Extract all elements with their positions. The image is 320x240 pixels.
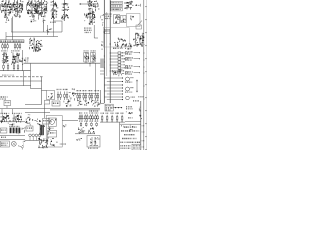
bypass group 1 (77, 90, 82, 100)
capacitor C7 inside (48, 93, 53, 98)
cathode resistor R6 (3, 63, 5, 71)
bus label (89, 110, 98, 111)
rectifier V8 cluster (114, 38, 126, 48)
resistor R3 (7, 43, 9, 50)
table title line 5 (120, 142, 139, 143)
shield box small (47, 91, 55, 100)
output transformer T6 (40, 125, 45, 136)
oscillator box (87, 136, 100, 148)
resistor R5 (17, 43, 19, 50)
heater ladder rung 6 (107, 93, 123, 94)
twin lead wires (90, 9, 92, 26)
band row group 1 (1, 115, 11, 124)
cathode resistor R7 (7, 63, 9, 71)
chassis bus line B (50, 109, 100, 111)
speaker plug P1 (125, 1, 133, 10)
wave switch section 3 (91, 100, 96, 106)
antenna terminal row (125, 65, 140, 69)
wire parallel AVC line (10, 18, 12, 32)
phono jack row (125, 77, 133, 83)
stub wires left (100, 71, 104, 74)
power transformer box (0, 141, 9, 147)
dropping resistor rung 1 (110, 52, 125, 54)
label x128 (128, 117, 133, 118)
alignment pair (126, 106, 133, 114)
bandswitch section 3 (89, 112, 93, 126)
tick marks x27 (28, 115, 31, 119)
wire from IF unit (113, 107, 122, 108)
arrow marks (76, 138, 82, 141)
dropping resistor rung 2 (104, 55, 125, 57)
dropping resistor rung 5 (110, 64, 125, 66)
tube V5 label (1, 50, 8, 51)
bus junction dots (104, 31, 111, 44)
wire bracket (94, 25, 98, 38)
wire corner y88 (31, 88, 42, 90)
band row group 1 label (1, 113, 10, 114)
resistor group 1 label (57, 89, 62, 90)
electrolytic capacitor C5 block (114, 15, 121, 24)
oscillator label (88, 148, 98, 149)
wave switch section 1 (77, 100, 82, 105)
table title line 3 (124, 134, 134, 135)
bandswitch bus line (78, 118, 99, 120)
wire bus horizontal y32 (11, 31, 62, 33)
socket cluster with pilot lamps (113, 70, 124, 76)
output jack J2 row (125, 57, 140, 61)
B+ feed wire vertical x22 (22, 50, 24, 71)
detector load R11 (91, 52, 97, 63)
heater ladder rung 7 (104, 96, 123, 97)
detector output drop wire (95, 63, 97, 92)
vibrator cluster 1 (78, 127, 85, 133)
RF choke L2 chain (50, 0, 58, 21)
wire drop from L3 (61, 21, 63, 32)
wire stub (5, 32, 7, 37)
tone control transformer B (140, 33, 145, 47)
resistor R4 (14, 43, 16, 50)
wire bus horizontal y36 (6, 36, 58, 38)
stub x12 to strip (12, 32, 14, 40)
filter box (26, 126, 33, 131)
wire from T4 down (43, 20, 45, 32)
note text (138, 96, 144, 97)
small box in shield (105, 29, 110, 34)
bypass capacitor C2 (21, 58, 25, 65)
trimmer bank 5 (120, 113, 123, 122)
IF unit box (105, 104, 113, 111)
right margin text 1 (142, 125, 145, 126)
relay box row 1 (111, 1, 123, 4)
oscillator section V7b (84, 11, 95, 25)
wire under label row (0, 42, 24, 44)
tube V6 envelope (11, 52, 21, 65)
drop wires below switch box (2, 109, 13, 114)
ground symbol cluster (19, 141, 25, 150)
dashed arrow link (132, 4, 141, 7)
corner wires (101, 100, 105, 103)
heater ladder rung 5 (104, 90, 123, 91)
small parts y122 (8, 123, 15, 126)
terminal strip lower (50, 139, 58, 147)
ground bus wire y70 (0, 70, 31, 72)
tone control transformer A (133, 33, 139, 47)
wire drop from L2 (53, 21, 55, 37)
trimmer marks under T3 (31, 18, 37, 22)
vertical rail x23 (23, 71, 25, 86)
switch S1 box (136, 25, 142, 29)
fuse row (126, 96, 135, 100)
corner text block (1, 96, 8, 99)
bus y133 (75, 133, 95, 135)
trimmer bank 4 (115, 113, 118, 122)
terminal box (52, 101, 60, 106)
diagonal pointer (138, 21, 143, 26)
heater ladder rung 4 (107, 87, 123, 88)
power bus vertical 2 (106, 12, 108, 76)
dropping resistor rung 4 (104, 61, 125, 63)
dropping resistor rung 3 (110, 58, 125, 60)
bus y139 (0, 139, 25, 141)
power bus vertical 1 (103, 0, 105, 103)
stub from switch box (6, 106, 8, 109)
pin labels (25, 58, 28, 63)
rail vertical x140 (140, 101, 142, 150)
tube socket circles (29, 134, 41, 140)
coupling cluster (69, 89, 76, 102)
detector stage label (84, 50, 96, 51)
wave switch section 2 (84, 100, 89, 106)
band row group 3 (25, 119, 33, 126)
bus segment y112 (25, 112, 50, 114)
bus line y122 (100, 121, 125, 123)
relay box row 2 (111, 5, 123, 8)
edge ticks x143 (143, 53, 145, 99)
volume control R10 (125, 43, 132, 49)
line cord row (125, 87, 134, 93)
band row group 4 (34, 119, 41, 126)
arrow part above table (130, 125, 134, 132)
group stub wires (5, 121, 17, 122)
band row group 2 (12, 115, 21, 123)
table top rule (120, 123, 141, 125)
trimmer marks under T4 (42, 18, 45, 23)
capacitor C1 (19, 43, 21, 50)
speaker cluster (38, 138, 49, 149)
electrolytic capacitor C6 block (121, 16, 127, 23)
padder capacitor C3 (34, 47, 41, 52)
bypass group 2 (83, 90, 88, 100)
mark near rail 1 (139, 107, 140, 112)
value label block (84, 27, 92, 33)
small cap C8 (22, 128, 26, 133)
table title line 2 (121, 130, 140, 131)
choke label (48, 128, 54, 129)
bus y135 (0, 135, 25, 137)
dropping resistor rung 6 (104, 67, 125, 69)
heater ladder rung 8 (107, 99, 123, 100)
antenna coil L3 chain (62, 0, 70, 21)
stamp box (132, 144, 141, 150)
trimmer bank 3 (110, 113, 114, 122)
vertical rail x41 (41, 77, 43, 105)
screen resistor R8 (13, 64, 15, 71)
wire osc down (47, 25, 49, 35)
wire link y21 (54, 20, 63, 22)
wire stub left (79, 3, 88, 4)
part number label (33, 50, 39, 52)
corner tick (121, 125, 123, 127)
heater ladder rung 1 (104, 77, 123, 78)
wave switch section 4 (97, 101, 101, 107)
IF transformer T3 with tube V3 stage (27, 0, 39, 18)
pilot lamp DS2 (11, 141, 16, 146)
power supply enclosure box (46, 116, 62, 148)
vertical x44 (44, 104, 46, 118)
wire from T2 secondary down (12, 17, 14, 33)
marks x101 y40 (101, 41, 103, 49)
dial lamp DS1 (131, 15, 134, 20)
bypass group 3 (89, 90, 94, 100)
IF transformer T4 with tube V4 stage (36, 0, 48, 20)
right margin text 3 (142, 140, 145, 141)
small box x44 (45, 100, 50, 104)
bandswitch section 4 (95, 112, 99, 126)
detector diode D1 (84, 52, 89, 63)
oscillator innards (90, 137, 100, 146)
oscillator coil L1 cluster (29, 38, 42, 51)
dashed rail y76 (0, 76, 43, 78)
band row group 5 (43, 119, 50, 125)
trimmer bank 1 (100, 113, 104, 122)
trimmer C4 (46, 29, 52, 33)
tube V6 label (11, 50, 20, 51)
switch box S2 (4, 100, 11, 105)
bypass group 4 (95, 90, 100, 100)
wire y90 stub (42, 89, 47, 91)
stub x6 to strip (5, 37, 7, 40)
film edge ticks (145, 6, 146, 150)
ground terminal row (125, 71, 140, 75)
table left edge (119, 122, 121, 150)
bus wire y93 (75, 93, 99, 95)
signal bus wire y63 (24, 62, 105, 64)
IF transformer T1 with tube V1 stage (1, 0, 12, 18)
converter tube V7 (88, 0, 100, 11)
relay box row 3 (111, 8, 123, 11)
part label top (133, 100, 139, 101)
chassis bus line A (0, 107, 100, 109)
text under shield box (113, 48, 123, 49)
resistor group 1 (57, 92, 61, 101)
tube V5 envelope (2, 52, 8, 63)
label block gray (100, 59, 104, 69)
shield dashed box (103, 28, 129, 48)
resistor R2 (4, 43, 6, 50)
bus line y121 (0, 121, 25, 123)
rectifier stack (9, 126, 20, 135)
IF transformer T2 with tube V2 stage (12, 0, 23, 18)
bandswitch section 2 (84, 112, 88, 126)
trimmer marks under T1 (5, 18, 9, 22)
band row group 2 label (12, 113, 22, 114)
resistor group 2 (64, 92, 68, 101)
power bus vertical 3 (109, 0, 111, 103)
board label (60, 143, 66, 144)
coil label (50, 22, 56, 23)
vertical rail x30 (30, 64, 32, 89)
film edge line (146, 0, 148, 150)
vibrator cluster 2 (89, 128, 95, 135)
dropping resistor rung 7 (110, 70, 124, 72)
small marks near x101 (100, 14, 104, 26)
specks above rail (2, 75, 14, 76)
bandswitch section 1 (79, 112, 83, 126)
right margin text 4 (142, 146, 144, 147)
mark near rail 2 (139, 115, 142, 119)
screen resistor R9 (17, 64, 19, 71)
bus label block (105, 13, 112, 19)
table small text left (120, 145, 130, 149)
rectifier block (48, 131, 57, 138)
switch symbols (64, 101, 71, 107)
trimmer bank 2 (105, 113, 109, 122)
right margin text 2 (142, 131, 145, 132)
terminal box T5 (0, 128, 7, 133)
dial lamp box (127, 14, 141, 27)
resistor group 2 label (63, 89, 68, 90)
row arrows (124, 2, 128, 9)
left vertical stub x100 (100, 90, 102, 103)
heater ladder rung 2 (107, 81, 123, 82)
heater ladder rung 3 (104, 84, 123, 85)
wire link to switch bank (62, 120, 78, 122)
stub below detector (89, 63, 90, 67)
tiny marks x63 (63, 124, 66, 127)
rail y81 (0, 80, 42, 82)
output jack J1 row (125, 51, 140, 55)
rail y85 (0, 85, 31, 87)
table title line 1 (124, 126, 136, 127)
marks x46 (47, 127, 50, 134)
label under bus (1, 137, 6, 138)
wire y104 mid (25, 104, 42, 106)
bus y140 (25, 140, 48, 142)
edge vertical line x143 (143, 0, 145, 150)
table title line 4 (122, 138, 137, 139)
terminal strip label row (0, 40, 24, 43)
bus line y121 right (125, 121, 141, 123)
dimension arrow (136, 80, 138, 92)
filter choke L4 (48, 118, 56, 127)
resistor R1 (2, 43, 4, 50)
